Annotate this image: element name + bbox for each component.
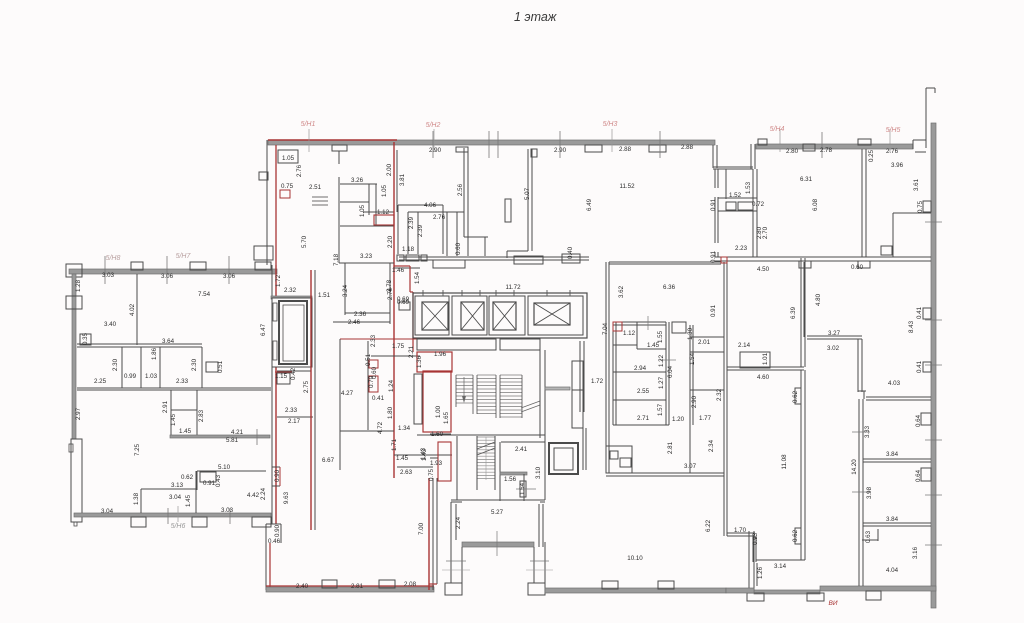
svg-text:1.53: 1.53 [745, 181, 752, 194]
svg-text:2.88: 2.88 [619, 146, 632, 153]
svg-text:1.54: 1.54 [414, 271, 421, 284]
svg-text:4.21: 4.21 [231, 429, 244, 436]
svg-text:1.30: 1.30 [687, 327, 694, 340]
svg-text:3.14: 3.14 [774, 563, 787, 570]
svg-text:5/Н3: 5/Н3 [603, 121, 618, 128]
svg-text:6.49: 6.49 [586, 198, 593, 211]
svg-text:7.18: 7.18 [333, 253, 340, 266]
svg-text:1.03: 1.03 [145, 373, 158, 380]
svg-text:2.14: 2.14 [738, 342, 751, 349]
svg-text:2.76: 2.76 [886, 148, 899, 155]
svg-text:2.94: 2.94 [634, 365, 647, 372]
svg-text:0.60: 0.60 [371, 366, 378, 379]
svg-text:2.90: 2.90 [429, 147, 442, 154]
svg-text:3.04: 3.04 [101, 508, 114, 515]
svg-text:1.15: 1.15 [275, 373, 288, 380]
svg-text:2.80: 2.80 [786, 148, 799, 155]
svg-text:0.51: 0.51 [365, 353, 372, 366]
svg-text:2.81: 2.81 [667, 441, 674, 454]
svg-text:1.27: 1.27 [658, 376, 665, 389]
svg-text:0.75: 0.75 [428, 468, 435, 481]
svg-text:2.51: 2.51 [309, 184, 322, 191]
svg-text:6.67: 6.67 [322, 457, 335, 464]
svg-text:1.45: 1.45 [170, 413, 177, 426]
svg-text:1.00: 1.00 [435, 405, 442, 418]
svg-text:1.52: 1.52 [729, 192, 742, 199]
svg-text:2.81: 2.81 [351, 583, 364, 590]
svg-text:2.76: 2.76 [387, 287, 394, 300]
svg-text:2.33: 2.33 [370, 334, 377, 347]
svg-text:3.40: 3.40 [104, 321, 117, 328]
svg-text:3.07: 3.07 [684, 463, 697, 470]
svg-text:1.34: 1.34 [398, 425, 411, 432]
svg-text:1.12: 1.12 [377, 209, 390, 216]
svg-text:3.61: 3.61 [913, 178, 920, 191]
svg-text:3.64: 3.64 [162, 338, 175, 345]
svg-text:1.71: 1.71 [391, 438, 398, 451]
svg-text:1.20: 1.20 [672, 416, 685, 423]
svg-text:0.64: 0.64 [915, 414, 922, 427]
svg-text:4.60: 4.60 [757, 374, 770, 381]
svg-text:0.35: 0.35 [82, 332, 89, 345]
svg-text:2.21: 2.21 [408, 345, 415, 358]
svg-text:2.56: 2.56 [457, 183, 464, 196]
svg-text:7.54: 7.54 [198, 291, 211, 298]
svg-text:1.45: 1.45 [396, 455, 409, 462]
svg-text:2.08: 2.08 [404, 581, 417, 588]
svg-text:5/Н1: 5/Н1 [301, 121, 316, 128]
svg-text:1.46: 1.46 [392, 267, 405, 274]
svg-text:9.63: 9.63 [283, 491, 290, 504]
svg-text:10.10: 10.10 [627, 555, 643, 562]
svg-text:1.12: 1.12 [623, 330, 636, 337]
svg-text:4.72: 4.72 [377, 421, 384, 434]
svg-text:3.06: 3.06 [161, 273, 174, 280]
svg-text:0.91: 0.91 [203, 480, 216, 487]
svg-text:4.06: 4.06 [424, 202, 437, 209]
svg-text:0.62: 0.62 [792, 529, 799, 542]
svg-text:1.72: 1.72 [591, 378, 604, 385]
svg-text:0.93: 0.93 [752, 532, 759, 545]
svg-text:3.62: 3.62 [618, 285, 625, 298]
svg-text:5/Н6: 5/Н6 [171, 523, 186, 530]
svg-text:2.76: 2.76 [433, 214, 446, 221]
svg-text:0.91: 0.91 [710, 304, 717, 317]
svg-text:0.75: 0.75 [917, 200, 924, 213]
svg-text:ВИ: ВИ [829, 600, 838, 607]
svg-text:6.08: 6.08 [812, 198, 819, 211]
svg-text:0.90: 0.90 [274, 524, 281, 537]
svg-text:4.42: 4.42 [247, 492, 260, 499]
svg-text:0.42: 0.42 [290, 367, 297, 380]
svg-text:2.33: 2.33 [285, 407, 298, 414]
svg-text:0.64: 0.64 [915, 469, 922, 482]
svg-text:2.83: 2.83 [198, 409, 205, 422]
svg-text:3.24: 3.24 [342, 284, 349, 297]
svg-text:1.05: 1.05 [381, 184, 388, 197]
svg-text:11.52: 11.52 [619, 183, 635, 190]
svg-text:2.78: 2.78 [820, 147, 833, 154]
svg-text:3.03: 3.03 [102, 272, 115, 279]
svg-text:1.54: 1.54 [689, 352, 696, 365]
svg-text:6.36: 6.36 [663, 284, 676, 291]
svg-text:0.90: 0.90 [274, 469, 281, 482]
svg-text:5/Н5: 5/Н5 [886, 127, 901, 134]
svg-text:0.62: 0.62 [792, 390, 799, 403]
svg-text:3.96: 3.96 [891, 162, 904, 169]
svg-text:0.46: 0.46 [268, 538, 281, 545]
svg-text:3.23: 3.23 [360, 253, 373, 260]
svg-text:0.40: 0.40 [567, 246, 574, 259]
svg-text:0.63: 0.63 [865, 530, 872, 543]
svg-text:11.72: 11.72 [505, 284, 521, 291]
svg-text:1.70: 1.70 [734, 527, 747, 534]
svg-text:3.10: 3.10 [535, 466, 542, 479]
svg-text:0.60: 0.60 [455, 242, 462, 255]
svg-text:0.25: 0.25 [868, 149, 875, 162]
svg-text:6.47: 6.47 [260, 323, 267, 336]
svg-text:4.27: 4.27 [341, 390, 354, 397]
svg-text:5/Н8: 5/Н8 [106, 255, 121, 262]
svg-text:1.93: 1.93 [430, 460, 443, 467]
svg-text:0.99: 0.99 [124, 373, 137, 380]
svg-text:3.27: 3.27 [828, 330, 841, 337]
svg-text:8.43: 8.43 [908, 320, 915, 333]
svg-text:2.01: 2.01 [698, 339, 711, 346]
svg-text:7.00: 7.00 [418, 522, 425, 535]
svg-text:2.34: 2.34 [708, 439, 715, 452]
svg-text:2.24: 2.24 [260, 487, 267, 500]
svg-text:14.20: 14.20 [851, 459, 858, 475]
svg-text:3.84: 3.84 [886, 516, 899, 523]
svg-text:2.63: 2.63 [400, 469, 413, 476]
svg-text:1.22: 1.22 [658, 354, 665, 367]
svg-text:3.84: 3.84 [886, 451, 899, 458]
svg-text:2.46: 2.46 [348, 319, 361, 326]
svg-text:4.03: 4.03 [888, 380, 901, 387]
svg-text:1.45: 1.45 [179, 428, 192, 435]
svg-text:2.39: 2.39 [408, 216, 415, 229]
svg-text:2.70: 2.70 [762, 226, 769, 239]
svg-text:1.05: 1.05 [359, 204, 366, 217]
svg-text:1.43: 1.43 [420, 447, 427, 460]
svg-text:1.55: 1.55 [657, 330, 664, 343]
svg-text:5/Н4: 5/Н4 [770, 126, 785, 133]
svg-text:3.03: 3.03 [221, 507, 234, 514]
svg-text:0.72: 0.72 [752, 201, 765, 208]
svg-text:3.04: 3.04 [169, 494, 182, 501]
svg-text:1.96: 1.96 [434, 351, 447, 358]
svg-text:2.90: 2.90 [691, 395, 698, 408]
svg-text:3.26: 3.26 [351, 177, 364, 184]
svg-text:2.17: 2.17 [288, 418, 301, 425]
svg-text:0.91: 0.91 [710, 198, 717, 211]
svg-text:1.86: 1.86 [151, 347, 158, 360]
svg-text:2.76: 2.76 [296, 164, 303, 177]
svg-text:2.90: 2.90 [554, 147, 567, 154]
svg-text:4.50: 4.50 [757, 266, 770, 273]
svg-text:1.24: 1.24 [388, 379, 395, 392]
svg-text:1.28: 1.28 [75, 279, 82, 292]
svg-text:4.02: 4.02 [129, 303, 136, 316]
svg-text:2.30: 2.30 [191, 358, 198, 371]
svg-text:3.16: 3.16 [912, 546, 919, 559]
svg-text:2.30: 2.30 [112, 358, 119, 371]
svg-text:1.57: 1.57 [657, 403, 664, 416]
svg-text:1.54: 1.54 [519, 482, 526, 495]
svg-text:2.25: 2.25 [94, 378, 107, 385]
svg-text:2.36: 2.36 [354, 311, 367, 318]
svg-text:2.91: 2.91 [162, 400, 169, 413]
svg-text:6.04: 6.04 [667, 365, 674, 378]
svg-text:2.24: 2.24 [455, 516, 462, 529]
svg-text:5.10: 5.10 [218, 464, 231, 471]
svg-text:7.25: 7.25 [134, 443, 141, 456]
svg-text:1.05: 1.05 [282, 155, 295, 162]
svg-text:0.41: 0.41 [372, 395, 385, 402]
svg-text:3.02: 3.02 [827, 345, 840, 352]
svg-text:5/Н7: 5/Н7 [176, 253, 192, 260]
svg-text:1.26: 1.26 [757, 566, 764, 579]
svg-text:2.23: 2.23 [735, 245, 748, 252]
svg-text:2.41: 2.41 [515, 446, 528, 453]
svg-text:1.56: 1.56 [504, 476, 517, 483]
svg-text:1.18: 1.18 [402, 246, 415, 253]
svg-text:2.55: 2.55 [637, 388, 650, 395]
svg-text:11.08: 11.08 [781, 454, 788, 470]
svg-text:6.39: 6.39 [790, 306, 797, 319]
svg-text:0.91: 0.91 [710, 250, 717, 263]
svg-text:5.81: 5.81 [226, 437, 239, 444]
svg-text:0.62: 0.62 [181, 474, 194, 481]
svg-text:0.75: 0.75 [281, 183, 294, 190]
svg-text:6.31: 6.31 [800, 176, 813, 183]
svg-text:1.01: 1.01 [762, 352, 769, 365]
svg-text:2.71: 2.71 [637, 415, 650, 422]
svg-text:2.32: 2.32 [284, 287, 297, 294]
svg-text:1.80: 1.80 [387, 406, 394, 419]
svg-text:1.45: 1.45 [185, 494, 192, 507]
svg-text:0.69: 0.69 [397, 299, 410, 306]
svg-text:5.27: 5.27 [491, 509, 504, 516]
svg-text:7.04: 7.04 [602, 322, 609, 335]
svg-text:3.33: 3.33 [864, 425, 871, 438]
svg-text:1.51: 1.51 [318, 292, 331, 299]
svg-text:0.41: 0.41 [916, 306, 923, 319]
svg-text:0.41: 0.41 [916, 360, 923, 373]
svg-text:3.13: 3.13 [171, 482, 184, 489]
svg-text:3.98: 3.98 [866, 486, 873, 499]
svg-text:4.80: 4.80 [815, 293, 822, 306]
svg-text:2.88: 2.88 [681, 144, 694, 151]
svg-text:1.38: 1.38 [133, 492, 140, 505]
svg-text:2.40: 2.40 [296, 583, 309, 590]
svg-text:1 этаж: 1 этаж [514, 10, 558, 24]
svg-text:1.72: 1.72 [275, 274, 282, 287]
svg-text:1.75: 1.75 [392, 343, 405, 350]
svg-text:5.70: 5.70 [301, 235, 308, 248]
svg-text:5/Н2: 5/Н2 [426, 122, 441, 129]
svg-text:0.43: 0.43 [215, 474, 222, 487]
svg-text:1.60: 1.60 [431, 431, 444, 438]
svg-text:3.81: 3.81 [399, 173, 406, 186]
svg-text:4.04: 4.04 [886, 567, 899, 574]
svg-text:1.36: 1.36 [416, 355, 423, 368]
svg-text:0.51: 0.51 [217, 360, 224, 373]
svg-text:5.07: 5.07 [524, 187, 531, 200]
svg-text:2.00: 2.00 [386, 163, 393, 176]
svg-text:6.22: 6.22 [705, 519, 712, 532]
svg-text:1.77: 1.77 [699, 415, 712, 422]
svg-text:2.20: 2.20 [387, 235, 394, 248]
svg-text:2.33: 2.33 [176, 378, 189, 385]
svg-text:3.06: 3.06 [223, 273, 236, 280]
svg-text:0.60: 0.60 [851, 264, 864, 271]
svg-text:2.32: 2.32 [716, 388, 723, 401]
svg-text:2.97: 2.97 [75, 407, 82, 420]
svg-text:2.75: 2.75 [303, 380, 310, 393]
svg-text:2.39: 2.39 [417, 224, 424, 237]
svg-text:1.65: 1.65 [443, 411, 450, 424]
